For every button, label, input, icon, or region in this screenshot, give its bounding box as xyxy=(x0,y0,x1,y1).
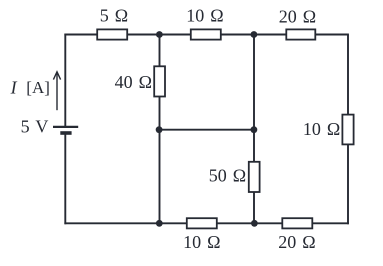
svg-text:10 Ω: 10 Ω xyxy=(186,6,223,26)
svg-text:20 Ω: 20 Ω xyxy=(278,232,315,252)
wire left (battery branch upper segment) xyxy=(64,34,66,127)
resistor 10 ohm (vertical, right branch) xyxy=(342,115,353,145)
battery 5V (cell symbol on left branch) xyxy=(53,127,78,133)
wire left (battery branch lower segment) xyxy=(64,133,66,224)
wire top (node to node, outer loop top) xyxy=(64,34,349,36)
node junction top-left (x=159.5,y=34.5) xyxy=(156,31,163,38)
node junction bottom-left (x=159.5,y=223.3) xyxy=(156,220,163,227)
svg-text:50 Ω: 50 Ω xyxy=(209,165,246,185)
svg-text:10 Ω: 10 Ω xyxy=(183,232,220,252)
resistor 10 ohm (top middle, horizontal) xyxy=(191,29,221,39)
resistor 5 ohm (top left, horizontal) xyxy=(97,29,127,39)
wire right (outer loop right side) xyxy=(347,35,349,225)
resistor 20 ohm (bottom right, horizontal) xyxy=(282,218,312,228)
svg-text:20 Ω: 20 Ω xyxy=(279,6,316,26)
node junction bottom-right (x=254,y=223.3) xyxy=(251,220,258,227)
svg-text:40 Ω: 40 Ω xyxy=(115,72,152,92)
svg-text:5 Ω: 5 Ω xyxy=(100,6,128,26)
svg-text:I: I xyxy=(10,77,18,97)
wire middle-right vertical (50 ohm branch) xyxy=(253,35,255,224)
node junction middle-right (x=254,y=129.7) xyxy=(251,126,258,133)
resistor 50 ohm (vertical, middle-right branch) xyxy=(249,162,260,192)
wire middle-left vertical (40 ohm branch) xyxy=(159,35,161,224)
wire middle horizontal (bridge between branches) xyxy=(160,129,255,131)
resistor 10 ohm (bottom left, horizontal) xyxy=(187,218,217,228)
svg-text:[A]: [A] xyxy=(26,78,50,97)
resistor 40 ohm (vertical, middle-left branch) xyxy=(154,66,165,96)
node junction top-right (x=254,y=34.5) xyxy=(251,31,258,38)
node junction middle-left (x=159.5,y=129.7) xyxy=(156,126,163,133)
resistor 20 ohm (top right, horizontal) xyxy=(286,29,315,39)
wire bottom (outer loop bottom) xyxy=(64,222,349,224)
current arrow I (pointing up along left branch) xyxy=(53,72,60,110)
svg-text:5 V: 5 V xyxy=(21,116,49,136)
svg-text:10 Ω: 10 Ω xyxy=(303,119,340,139)
